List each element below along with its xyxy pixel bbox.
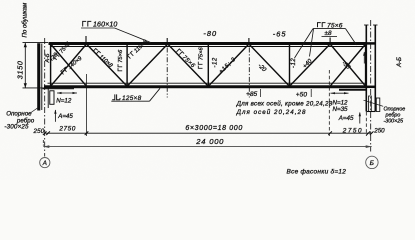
right support column line 1 (365, 25, 367, 112)
svg-text:250: 250 (33, 128, 45, 135)
label 125x8 underline (111, 100, 149, 102)
svg-text:-300×25: -300×25 (4, 124, 29, 131)
left support seat line (43, 88, 75, 90)
svg-text:+50: +50 (296, 91, 308, 98)
right seat detail 1 (369, 96, 372, 112)
left support lower line (47, 88, 49, 108)
vertical post at node 289 (289, 44, 291, 86)
right support column line 2 (374, 25, 376, 112)
rising diagonal +15-3 (208, 44, 249, 86)
axis dash-dot below apex 167.7 (166, 48, 168, 98)
svg-text:По обушкам: По обушкам (22, 2, 29, 38)
svg-text:A=45: A=45 (338, 115, 354, 122)
left support rib black bar (37, 43, 40, 110)
chain tick x86.5 (85, 131, 89, 135)
vertical post at node 208 (207, 44, 209, 86)
right up arrow (359, 112, 361, 124)
left up arrow (54, 110, 56, 122)
X panel left falling diagonal 140x9 (51, 44, 87, 86)
right top chord stub across column (366, 42, 375, 45)
24000 arrow right (366, 145, 372, 148)
rising diagonal 110x8 (127, 44, 168, 86)
svg-text:75×6: 75×6 (118, 49, 124, 63)
X panel left rising diagonal 75x6 (51, 44, 87, 86)
left end dash above 24000 line (42, 140, 44, 146)
svg-text:24: 24 (195, 137, 206, 146)
3150 dim line (24, 43, 26, 88)
top chord thick line (49, 42, 367, 45)
texts group (4, 2, 405, 176)
left end post (50, 44, 52, 87)
label 75x6 top right angle symbol (318, 23, 326, 28)
svg-text:Для всех осей, кроме 20,24,28: Для всех осей, кроме 20,24,28 (236, 101, 333, 108)
svg-text:+85: +85 (246, 91, 258, 98)
dim chain line (45, 132, 372, 134)
falling diagonal 75x6 (168, 44, 209, 86)
web label 140x9 on X falling (61, 55, 84, 76)
right column top tick 2 (373, 24, 378, 26)
svg-text:-80: -80 (203, 29, 217, 38)
web label 75x6 vertical at post 127 (118, 49, 124, 71)
svg-text:±8: ±8 (325, 30, 332, 37)
3150 dim extension bottom (23, 87, 45, 89)
svg-text:-12: -12 (291, 58, 297, 68)
svg-text:А: А (42, 160, 47, 167)
svg-text:ребро: ребро (385, 112, 401, 118)
bottom chord label 125x8 angle symbol (112, 94, 141, 101)
bottom chord thick line (44, 85, 367, 88)
svg-text:A=45: A=45 (57, 113, 73, 120)
label 125x8 leader (150, 88, 161, 101)
label 160x10 underline (81, 27, 115, 29)
right column top tick 1 (364, 24, 369, 26)
label plus-minus8 underline (322, 36, 338, 38)
left support axis line (44, 38, 46, 157)
svg-text:Опорное: Опорное (6, 110, 32, 117)
right column bottom cap (366, 111, 375, 113)
label +50 tick (310, 89, 312, 97)
svg-text:Для осей 20,24,28: Для осей 20,24,28 (236, 109, 307, 116)
svg-text:N=35: N=35 (333, 106, 349, 113)
24000 dim line (43, 146, 371, 148)
extension line node 86.5 (86, 74, 88, 136)
svg-text:2750: 2750 (58, 126, 75, 133)
web label 75x6 on X rising (53, 40, 72, 61)
svg-text:А-Б: А-Б (397, 57, 403, 68)
node tick above chord x167.7 (166, 38, 168, 43)
right N=12 double arrow (331, 92, 349, 94)
label 75x6 leader middle (310, 29, 314, 57)
svg-text:000: 000 (209, 137, 224, 146)
chain tick x48.1 (46, 131, 50, 135)
chain tick x368.3 (367, 131, 371, 135)
circle axis A (40, 158, 50, 168)
svg-text:125×8: 125×8 (122, 95, 142, 102)
web label 75x6 vertical at post 208 (198, 46, 204, 68)
label 75x6 leader left (295, 29, 314, 58)
svg-text:Все фасонки δ=12: Все фасонки δ=12 (287, 169, 347, 176)
rising diagonal +40 (290, 44, 331, 86)
right bottom chord stub across column (366, 86, 375, 89)
vertical post at node 127 (126, 44, 128, 86)
chain tick x330.1 (328, 131, 332, 135)
X panel right rising diagonal (330, 44, 366, 86)
falling diagonal 110x8 (87, 44, 128, 86)
X panel right falling diagonal -35 (330, 44, 366, 86)
right seat detail 2 (376, 98, 380, 112)
left support inner line (41, 44, 43, 111)
web label 110x8 rising second (128, 38, 150, 60)
svg-text:160×10: 160×10 (93, 22, 117, 29)
3150 dim extension top (23, 42, 49, 44)
right column axis dash-dot (370, 20, 372, 152)
right support seat line (339, 89, 366, 91)
web label 75x6 falling third (175, 49, 196, 70)
label 160x10 angle symbol (83, 21, 92, 26)
web label 110x8 falling first (92, 48, 114, 69)
3150 dim arrow top (24, 43, 27, 48)
label 75x6 leader right (346, 29, 357, 45)
svg-text:N=12: N=12 (56, 97, 72, 104)
right end post (365, 44, 367, 87)
svg-text:Б: Б (370, 160, 375, 167)
chain tick x44.7 (43, 131, 47, 135)
chain tick x371.7 (370, 131, 374, 135)
node tick above chord x330.1 (329, 38, 331, 44)
24000 arrow left (43, 145, 49, 148)
svg-text:2750: 2750 (342, 128, 363, 135)
svg-text:3150: 3150 (16, 60, 25, 79)
svg-text:-300×25: -300×25 (384, 119, 404, 125)
svg-text:6×3000=18 000: 6×3000=18 000 (185, 125, 243, 132)
svg-text:-65: -65 (273, 30, 287, 39)
right column ext dashed to dim line (365, 112, 367, 136)
svg-text:250: 250 (373, 128, 385, 135)
node tick above chord x86.5 (85, 36, 87, 43)
right opornoe leader (364, 100, 384, 106)
label +85 tick (260, 89, 262, 97)
extension line node 330.1 dashed (328, 70, 330, 136)
node tick above chord x248.9 (248, 38, 250, 43)
svg-text:-12: -12 (213, 57, 219, 67)
left support seat detail rect (50, 91, 54, 105)
up arrow near right end post (363, 52, 365, 64)
top chord thin line (50, 46, 366, 48)
left N=12 double arrow (57, 92, 77, 94)
circle axis B (366, 156, 378, 168)
axis dash-dot below apex 248.9 (248, 48, 250, 98)
svg-text:75×6: 75×6 (199, 46, 205, 60)
left opornoe leader (31, 108, 38, 113)
paper background (0, 0, 415, 180)
3150 dim arrow bottom (24, 83, 27, 88)
bottom chord thin line (48, 82, 367, 84)
falling diagonal -20 (249, 44, 290, 86)
label 160x10 leader (115, 28, 151, 43)
label 75x6 underline (313, 28, 346, 30)
